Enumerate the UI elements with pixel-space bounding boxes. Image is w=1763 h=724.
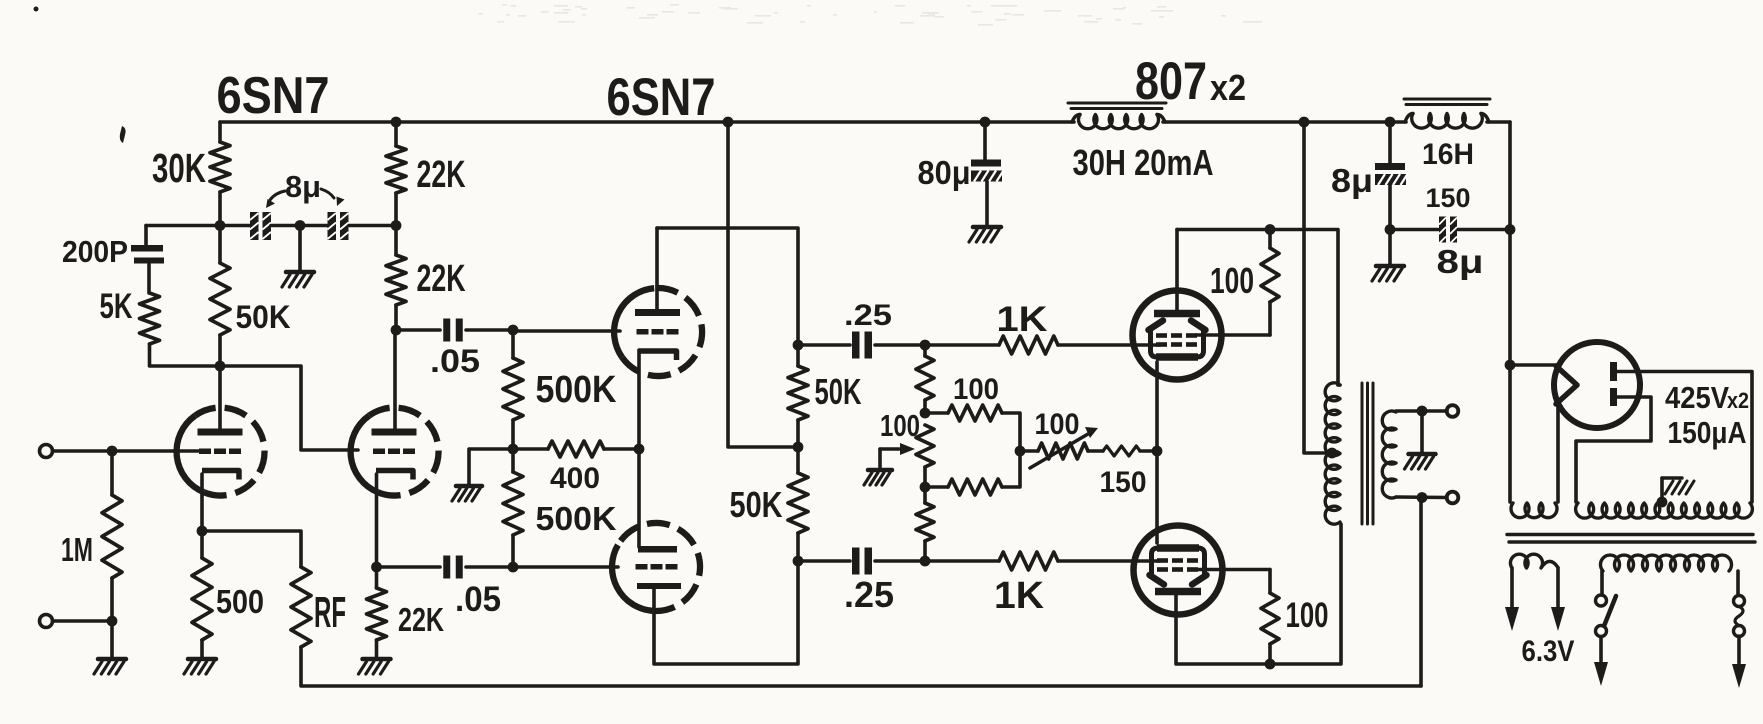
svg-text:100: 100 (1210, 260, 1254, 301)
wire V3 plate lead (655, 228, 659, 309)
svg-text:8μ: 8μ (1331, 163, 1373, 200)
tube V4 6SN7 section B (612, 523, 700, 611)
wire 50K top lead (218, 226, 222, 264)
capacitor .05 upper (443, 319, 463, 342)
wire 807 lower plate line (1176, 524, 1341, 664)
OPT primary winding (1325, 383, 1340, 524)
svg-text:100: 100 (880, 408, 920, 443)
label 500K upper (536, 368, 617, 410)
svg-text:6SN7: 6SN7 (217, 66, 330, 124)
wire OPT secondary top (1396, 409, 1447, 413)
wire B+ top rail (220, 120, 1510, 124)
capacitor 200P (131, 245, 164, 264)
label 22K lower (417, 257, 466, 299)
wire input low (53, 619, 112, 623)
svg-text:150: 150 (1100, 466, 1147, 499)
ground below 80u (969, 227, 1001, 242)
junction B+ rail tap (723, 117, 734, 128)
resistor 30K (210, 142, 230, 192)
ground below 500 (184, 659, 216, 674)
svg-text:500K: 500K (536, 501, 617, 538)
svg-text:6.3V: 6.3V (1522, 635, 1575, 668)
ground below 8u pair (282, 272, 314, 287)
resistor 100 screen lower (1261, 570, 1279, 665)
wire V1 cathode lead (200, 474, 204, 531)
label 500 (216, 584, 264, 621)
wire 8u cap to 22K node (349, 224, 396, 228)
junction grid node V3 (508, 325, 519, 336)
svg-text:8μ: 8μ (1437, 244, 1484, 281)
wire plate V1 to grid V2 (220, 366, 358, 450)
wire 50K to .25 lower (798, 559, 850, 563)
choke 16H core (1404, 99, 1490, 105)
wire .25 lower to pot node (875, 559, 925, 563)
junction pot chain bottom (920, 556, 931, 567)
wire feedback rail riser (1419, 498, 1423, 686)
capacitor .25 upper (852, 332, 872, 359)
junction 500K midpoint (508, 444, 519, 455)
junction pot chain top (920, 340, 931, 351)
junction V1 cathode node (197, 526, 208, 537)
wire node to 200P branch (146, 224, 220, 228)
resistor 1M (102, 451, 122, 621)
capacitor 8u (right of pair) (328, 212, 349, 240)
junction HV center tap (1657, 497, 1668, 508)
junction 8u filter node (1385, 224, 1396, 235)
label 50K upper (815, 371, 862, 412)
junction 50K upper top (793, 340, 804, 351)
svg-text:22K: 22K (417, 153, 466, 195)
svg-text:.25: .25 (844, 574, 894, 615)
junction rectifier tap (1505, 360, 1516, 371)
label 150 cap (1426, 183, 1471, 213)
capacitor 8u filter (1375, 163, 1408, 185)
faint scan noise band top (478, 4, 1262, 26)
wire V1 grid lead (53, 449, 198, 453)
wire 200P top lead (144, 226, 148, 246)
wire V2 cathode to .05 lower (377, 565, 441, 569)
svg-text:1K: 1K (997, 300, 1048, 339)
label 100 screen lower (1286, 596, 1329, 635)
resistor 100 chain upper (916, 345, 934, 413)
wire .05 lower to 500K node (466, 565, 513, 569)
fuse mains (1734, 596, 1745, 637)
svg-text:1M: 1M (61, 532, 93, 569)
wire V3 plate to 50K (657, 228, 798, 345)
resistor RF feedback (291, 567, 311, 647)
wire rectifier plate lower (1576, 397, 1651, 502)
wire 80u top lead (983, 122, 987, 159)
junction 8u midpoint (295, 220, 306, 231)
junction bridge mid (1015, 446, 1026, 457)
resistor 5K (140, 293, 160, 344)
wire 22K to plate V2 node (394, 305, 398, 330)
capacitor 8u (left of pair) (250, 212, 271, 240)
ground below wiper (864, 470, 892, 485)
svg-text:500: 500 (216, 584, 264, 621)
wire between 8u caps (271, 224, 328, 228)
PT core (1507, 535, 1755, 543)
svg-text:30H 20mA: 30H 20mA (1073, 142, 1214, 183)
wire .25 upper to pot node (875, 343, 925, 347)
PT 6.3V winding (1510, 554, 1558, 568)
wire 8u filter ground stub (1388, 230, 1392, 266)
resistor 100 chain lower (916, 487, 934, 561)
wire 8u filter top lead (1388, 122, 1392, 163)
junction secondary feedback tap (1417, 492, 1428, 503)
junction node plate V1 / grid V2 (215, 361, 226, 372)
label 425Vx2 (1665, 380, 1749, 415)
label 150 (1100, 466, 1147, 499)
svg-text:500K: 500K (536, 368, 617, 410)
OPT core (1362, 383, 1373, 524)
svg-text:5K: 5K (100, 287, 133, 326)
resistor 100 screen upper (1196, 230, 1279, 336)
wire 807 lower screen (1198, 568, 1270, 572)
junction input low / 1M (107, 616, 118, 627)
label RF (314, 589, 346, 637)
junction 150 cap node (1505, 224, 1516, 235)
wire 807 upper plate lead (1175, 230, 1179, 314)
wire OPT secondary bottom (1396, 495, 1447, 499)
label 50K lower (730, 484, 783, 525)
wire rectifier plate upper (1617, 372, 1753, 503)
wire grid V3 (513, 329, 620, 333)
label 1K upper (997, 300, 1048, 339)
svg-text:.25: .25 (844, 299, 892, 332)
wire 807 plate line upper (1177, 230, 1338, 386)
wire 6.3V left arrow (1505, 568, 1519, 631)
wire between 22K (394, 193, 398, 255)
choke 30H winding (1072, 115, 1165, 129)
label 100 screen upper (1210, 260, 1254, 301)
junction screen resistor lower (1265, 659, 1276, 670)
wire B+ to OPT center tap (1304, 122, 1330, 453)
junction grid node V4 (508, 562, 519, 573)
svg-text:100: 100 (1035, 408, 1080, 441)
resistor 22K cathode (367, 567, 387, 658)
svg-text:22K: 22K (398, 602, 444, 639)
junction secondary ground tap (1417, 406, 1428, 417)
ground HV center tap (1662, 478, 1694, 502)
junction pot node lower (920, 482, 931, 493)
resistor 50K lower (788, 447, 808, 561)
label 100 pot (880, 408, 920, 443)
label 5K (100, 287, 133, 326)
ground below 1M (94, 659, 126, 674)
label 16H (1422, 138, 1474, 171)
wire RF to feedback rail (301, 647, 1421, 686)
label 6SN7 driver stage (607, 68, 716, 127)
svg-text:50K: 50K (815, 371, 862, 412)
junction V2 cathode node (371, 562, 382, 573)
wire node to 8u cap (220, 224, 250, 228)
junction 50K mid node (793, 442, 804, 453)
tube V1 6SN7 section A (177, 408, 265, 496)
svg-text:x2: x2 (1210, 67, 1246, 108)
svg-text:.05: .05 (455, 580, 501, 619)
label 8u below cap (1437, 244, 1484, 281)
terminal output low (1447, 492, 1459, 504)
label 22K cathode (398, 602, 444, 639)
svg-text:30K: 30K (152, 145, 206, 191)
resistor 500K lower (503, 449, 523, 567)
label .05 lower (455, 580, 501, 619)
resistor 100 bridge upper (925, 405, 1020, 451)
label .05 upper (430, 343, 480, 379)
terminal input low (40, 615, 53, 628)
label 8u with arrows (266, 169, 345, 208)
svg-text:400: 400 (550, 462, 600, 495)
tube 807 upper (1133, 291, 1222, 380)
label .25 lower (844, 574, 894, 615)
wire 1M ground stub (110, 621, 114, 658)
choke 30H core (1068, 103, 1166, 109)
junction 150 to cathode line (1152, 446, 1163, 457)
svg-text:16H: 16H (1422, 138, 1474, 171)
svg-text:200P: 200P (62, 234, 128, 269)
rheostat 100 variable (1020, 427, 1103, 468)
wire mains left arrow (1594, 637, 1608, 686)
svg-text:50K: 50K (730, 484, 783, 525)
svg-text:22K: 22K (417, 257, 466, 299)
wire .05 to grid node V3 (466, 328, 513, 332)
wire mains right drop (1736, 571, 1740, 595)
wire 150 cap row (1390, 228, 1510, 232)
resistor 400 (513, 441, 639, 457)
label 6SN7 input stage (217, 66, 330, 124)
wire B+ to 50K mid (728, 122, 798, 447)
wire pot to lower zigzag (923, 467, 927, 487)
svg-text:100: 100 (953, 373, 999, 406)
wire V2 plate lead (393, 330, 397, 429)
scan speck top-left (34, 7, 39, 12)
wire V4 cathode lead (654, 561, 798, 664)
PT mains winding (1601, 555, 1732, 571)
switch mains (1596, 595, 1617, 637)
junction screen resistor tap upper (1265, 224, 1276, 235)
junction 400 to cathode V3 (634, 444, 645, 455)
wire 6.3V right arrow (1551, 568, 1565, 631)
junction V4 cathode / 50K node (793, 556, 804, 567)
junction OPT center tap (1327, 448, 1338, 459)
junction node 30K/50K/8u (215, 220, 226, 231)
resistor 150 (1103, 446, 1157, 456)
wire 8u filter bottom (1388, 185, 1392, 230)
junction 8u filter at rail (1385, 117, 1396, 128)
svg-text:1K: 1K (994, 574, 1044, 616)
PT filament winding (1511, 503, 1557, 518)
resistor 50K (210, 263, 230, 335)
label 400 (550, 462, 600, 495)
capacitor .25 lower (852, 548, 872, 575)
wire 8u midpoint ground stub (298, 226, 302, 272)
ground below 8u filter (1372, 266, 1404, 281)
wire 50K bottom lead (218, 335, 222, 366)
tube V3 6SN7 section A (614, 288, 702, 376)
wire rectifier filament drop (1556, 404, 1560, 502)
svg-text:RF: RF (314, 589, 346, 637)
junction plate V2 node (391, 325, 402, 336)
tube V2 6SN7 section B (351, 408, 439, 496)
resistor 500K upper (503, 330, 523, 449)
junction 22K/8u node (391, 220, 402, 231)
wire midpoint to ground (469, 449, 513, 485)
ground below 22K cathode (359, 659, 391, 674)
resistor 22K lower (386, 255, 406, 305)
capacitor 80u (971, 160, 1004, 182)
wire V3 cathode to V4 plate (637, 350, 641, 547)
label 100 variable (1035, 408, 1080, 441)
choke 16H winding (1405, 114, 1489, 129)
wire mains right arrow (1732, 636, 1746, 688)
label 30K (152, 145, 206, 191)
label 500K lower (536, 501, 617, 538)
resistor 100 bridge lower (925, 451, 1020, 495)
tube rectifier (1554, 342, 1640, 428)
pot wiper arrow (880, 443, 915, 469)
svg-text:150μA: 150μA (1668, 415, 1747, 450)
svg-text:6SN7: 6SN7 (607, 68, 716, 127)
junction input to 1M (107, 446, 118, 457)
junction 80u at rail (980, 117, 991, 128)
label 8u filter (1331, 163, 1373, 200)
wire HV riser (1508, 122, 1512, 502)
wire 30K top lead (218, 122, 222, 142)
wire 80u ground lead (985, 182, 989, 227)
PT HV winding (1576, 503, 1753, 518)
capacitor .05 lower (443, 556, 463, 579)
junction pot node upper (920, 408, 931, 419)
label 807 x2 (1135, 53, 1246, 111)
resistor 50K upper (788, 345, 808, 447)
svg-text:425V: 425V (1665, 380, 1729, 415)
wire rectifier filament left (1510, 363, 1556, 367)
terminal input hot (40, 445, 53, 458)
wire V1 plate lead (218, 366, 222, 429)
wire 5K bottom lead (150, 344, 221, 366)
resistor 1K lower (925, 552, 1160, 570)
potentiometer 100 (916, 425, 934, 467)
wire 807 cathodes common (1155, 362, 1159, 543)
resistor 500 (192, 531, 212, 658)
wire 50K to .25 upper (798, 343, 850, 347)
wire 22K chain top lead (394, 122, 398, 146)
terminal output hot (1447, 405, 1459, 417)
capacitor 150/8u (1439, 217, 1457, 244)
wire plate V2 to .05 (396, 328, 440, 332)
ground below 500K midpoint (452, 486, 482, 501)
svg-text:80μ: 80μ (918, 155, 971, 192)
wire V2 cathode lead (375, 474, 379, 567)
wire 200P to 5K (147, 264, 151, 294)
label 1M (61, 532, 93, 569)
wire 30K bottom lead (218, 192, 222, 226)
label 6.3V (1522, 635, 1575, 668)
svg-text:x2: x2 (1727, 388, 1749, 413)
scan ink blob (120, 126, 126, 143)
wire grid V4 (513, 565, 618, 569)
label 30H 20mA (1073, 142, 1214, 183)
wire secondary ground stub (1420, 411, 1424, 452)
label .25 upper (844, 299, 892, 332)
label 50K (236, 299, 291, 335)
wire cathode to RF (202, 531, 301, 567)
wire OPT primary top (1338, 383, 1340, 387)
junction B+ rail OPT (1299, 117, 1310, 128)
resistor 1K upper (925, 336, 1160, 354)
label 80u (918, 155, 971, 192)
label 200P (62, 234, 128, 269)
wire mains left drop (1600, 571, 1604, 595)
tube 807 lower (1134, 526, 1223, 615)
label 150uA (1668, 415, 1747, 450)
resistor 22K upper (386, 146, 406, 193)
ground below secondary (1405, 454, 1436, 469)
label 1K lower (994, 574, 1044, 616)
OPT secondary winding (1382, 411, 1396, 498)
svg-text:50K: 50K (236, 299, 291, 335)
junction 22K chain at rail (391, 117, 402, 128)
svg-text:150: 150 (1426, 183, 1471, 213)
label 100 bridge upper (953, 373, 999, 406)
svg-text:.05: .05 (430, 343, 480, 379)
svg-text:8μ: 8μ (285, 169, 321, 204)
svg-text:100: 100 (1286, 596, 1329, 635)
label 22K upper (417, 153, 466, 195)
